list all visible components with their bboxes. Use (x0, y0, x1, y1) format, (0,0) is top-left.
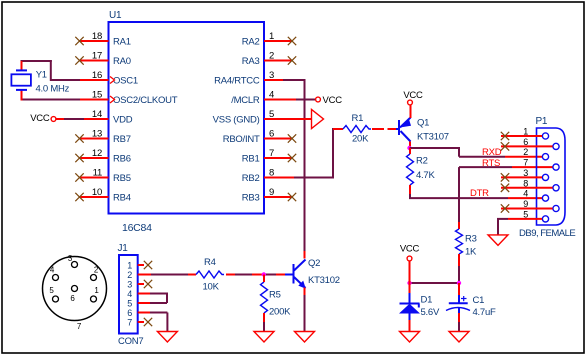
svg-text:1: 1 (127, 261, 132, 271)
svg-text:J1: J1 (118, 243, 129, 254)
no-connect X on pin 13 (75, 134, 83, 142)
svg-text:20K: 20K (352, 134, 369, 145)
wire VSS pin 5 (264, 118, 312, 120)
svg-text:7: 7 (523, 158, 528, 168)
svg-text:KT3102: KT3102 (308, 275, 340, 286)
no-connect X on J1 pin 1 (144, 261, 152, 269)
svg-text:4.7uF: 4.7uF (473, 307, 496, 318)
transistor Q1 KT3107 PNP (398, 120, 400, 135)
svg-text:RBO/INT: RBO/INT (223, 134, 260, 145)
svg-text:VCC: VCC (400, 244, 420, 255)
no-connect X on pin 18 (75, 37, 83, 45)
wire U1 pin 7 stub (264, 157, 292, 159)
wire node to RXD DB9 pin 2 (410, 147, 460, 149)
P1 pin circle 5 (542, 216, 548, 222)
wire VCC to VDD (56, 118, 64, 120)
svg-text:RA1: RA1 (113, 37, 131, 48)
wire J1 pin 7 (138, 321, 144, 323)
DIN socket pin 6 (72, 286, 78, 292)
svg-text:R3: R3 (465, 234, 477, 245)
svg-text:4.0 MHz: 4.0 MHz (36, 83, 70, 94)
wire crystal top to OSC1 (51, 79, 80, 81)
wire R4 to Q2 base (226, 274, 235, 276)
wire C1 to ground (458, 308, 460, 313)
DIN socket outer circle (43, 257, 107, 321)
junction dot R5 top (262, 272, 266, 276)
connector P1 DB9 outline (537, 128, 566, 225)
svg-text:16C84: 16C84 (122, 222, 152, 234)
wire J1 pin 1 (138, 264, 144, 266)
wire P1 pin 3 (501, 176, 542, 178)
P1 pin circle 6 (553, 143, 559, 149)
no-connect X on P1 pin 1 (501, 132, 509, 140)
ground under D1 (400, 332, 420, 343)
wire RTS DB9 pin 7 to R3 (512, 166, 553, 168)
wire U1 pin 9 stub (264, 196, 292, 198)
wire bottom node horizontal (409, 282, 459, 284)
transistor Q2 KT3102 NPN (293, 264, 295, 284)
svg-text:5.6V: 5.6V (421, 307, 440, 318)
no-connect X on P1 pin 6 (501, 142, 509, 150)
wire U1 pin 18 stub (80, 40, 109, 42)
svg-text:Y1: Y1 (36, 69, 47, 80)
wire node to D1 (409, 283, 411, 293)
resistor R4 (196, 271, 224, 278)
no-connect X on P1 pin 8 (501, 184, 509, 192)
resistor R5 (261, 282, 268, 313)
svg-text:RB7: RB7 (113, 134, 131, 145)
ground under C1 (449, 332, 469, 343)
wire RB2 pin 8 to R1 (264, 177, 294, 179)
svg-text:7: 7 (127, 318, 132, 328)
junction dot Q1 collector (407, 146, 411, 150)
svg-text:VCC: VCC (323, 95, 343, 106)
svg-text:RA3: RA3 (242, 56, 260, 67)
svg-text:KT3107: KT3107 (417, 132, 449, 143)
no-connect X on J1 pin 3 (144, 280, 152, 288)
IC U1 16C84 microcontroller body (109, 22, 265, 214)
svg-text:C1: C1 (473, 295, 485, 306)
wire R1 to Q1 base (372, 128, 384, 130)
wire VCC to Q1 emitter (410, 105, 412, 118)
no-connect X on pin 7 (288, 154, 296, 162)
resistor R3 (456, 229, 463, 254)
P1 pin circle 2 (542, 154, 548, 160)
svg-text:VDD: VDD (113, 115, 133, 126)
DIN socket pin 3 (72, 262, 78, 268)
P1 pin circle 9 (553, 205, 559, 211)
wire U1 pin 13 stub (80, 138, 109, 140)
wire P1 pin 5 to ground (508, 218, 542, 220)
resistor R1 (343, 126, 371, 133)
no-connect X on pin 9 (288, 193, 296, 201)
svg-text:1K: 1K (465, 247, 477, 258)
wire P1 pin 6 (501, 145, 553, 147)
svg-text:R4: R4 (204, 257, 216, 268)
wire crystal bottom to OSC2 (22, 99, 81, 101)
svg-text:RTS: RTS (482, 158, 500, 169)
svg-text:RXD: RXD (482, 147, 502, 158)
svg-text:/MCLR: /MCLR (231, 95, 260, 106)
ground under R5 (254, 332, 274, 343)
wire U1 pin 2 stub (264, 60, 292, 62)
svg-text:200K: 200K (269, 307, 291, 318)
ground arrow at VSS (312, 110, 324, 129)
wire DTR to DB9 pin 4 (409, 197, 508, 199)
ground under J1 (157, 332, 177, 343)
wire U1 pin 12 stub (80, 157, 109, 159)
svg-text:3: 3 (127, 280, 132, 290)
svg-text:U1: U1 (109, 10, 122, 21)
svg-text:DTR: DTR (470, 188, 489, 199)
wire /MCLR pin 4 to VCC (264, 99, 296, 101)
svg-text:Q2: Q2 (308, 258, 320, 269)
power VCC at /MCLR (316, 97, 321, 102)
ground under P1 pin 5 (488, 235, 508, 246)
svg-text:RB4: RB4 (113, 193, 131, 204)
P1 pin circle 3 (542, 174, 548, 180)
resistor R2 (407, 154, 414, 185)
no-connect X on pin 17 (75, 56, 83, 64)
no-connect X on J1 pin 7 (144, 318, 152, 326)
wire P1 pin 9 (501, 208, 553, 210)
wire U1 pin 17 stub (80, 60, 109, 62)
no-connect X on P1 pin 3 (501, 173, 509, 181)
junction dot left bottom node (407, 281, 411, 285)
P1 pin circle 1 (542, 133, 548, 139)
svg-text:RA2: RA2 (242, 37, 260, 48)
wire VCC to bottom node (409, 261, 411, 283)
wire U1 pin 11 stub (80, 177, 109, 179)
DIN socket pin 4 (53, 275, 59, 281)
svg-text:Q1: Q1 (417, 118, 429, 129)
svg-text:RA0: RA0 (113, 56, 131, 67)
no-connect X on pin 2 (288, 56, 296, 64)
P1 pin circle 8 (553, 185, 559, 191)
svg-text:6: 6 (127, 308, 132, 318)
no-connect X on pin 11 (75, 173, 83, 181)
wire R5 to ground (263, 313, 265, 322)
svg-text:4: 4 (523, 189, 528, 199)
svg-text:RB3: RB3 (242, 193, 260, 204)
svg-text:2: 2 (127, 270, 132, 280)
svg-text:P1: P1 (536, 116, 548, 127)
svg-text:R5: R5 (269, 290, 281, 301)
capacitor C1 polarized (449, 302, 468, 304)
wire J1 pins 4-5 loop (138, 293, 150, 295)
svg-text:10K: 10K (203, 282, 220, 293)
P1 pin circle 7 (553, 164, 559, 170)
svg-text:RB6: RB6 (113, 154, 131, 165)
wire OSC2 pin 15 stub (80, 99, 109, 101)
wire node to R2 (409, 148, 411, 154)
wire Q1 collector to node (409, 142, 411, 150)
wire Q2 emitter to ground (304, 288, 306, 296)
svg-text:5: 5 (127, 299, 132, 309)
svg-text:DB9, FEMALE: DB9, FEMALE (519, 228, 575, 239)
svg-text:4: 4 (127, 289, 132, 299)
wire P1 pin 8 (501, 187, 553, 189)
wire node to C1 (458, 283, 460, 295)
svg-text:RA4/RTCC: RA4/RTCC (214, 76, 260, 87)
ground under Q2 (295, 332, 315, 343)
clock arrow on OSC2 (110, 96, 115, 103)
no-connect X on P1 pin 9 (501, 204, 509, 212)
svg-text:CON7: CON7 (118, 336, 143, 347)
wire OSC1 pin 16 stub (80, 79, 109, 81)
svg-text:4.7K: 4.7K (416, 170, 435, 181)
svg-text:RB5: RB5 (113, 173, 131, 184)
wire R2 to DTR (409, 185, 411, 194)
connector J1 body (119, 255, 138, 334)
svg-text:OSC1: OSC1 (113, 76, 138, 87)
wire U1 pin 6 stub (264, 138, 292, 140)
wire R5 top (263, 275, 265, 283)
svg-text:VSS (GND): VSS (GND) (213, 115, 260, 126)
wire RA4/RTCC pin 3 to Q2 collector (264, 79, 283, 81)
svg-text:R2: R2 (416, 156, 428, 167)
svg-text:R1: R1 (352, 113, 364, 124)
wire J1 pin 3 (138, 283, 144, 285)
no-connect X on pin 1 (288, 37, 296, 45)
no-connect X on pin 6 (288, 134, 296, 142)
clock arrow on OSC1 (110, 77, 115, 84)
wire J1 pin 6 to ground (138, 312, 150, 314)
svg-text:VCC: VCC (403, 90, 423, 101)
junction dot right bottom node (457, 281, 461, 285)
svg-text:2: 2 (523, 147, 528, 157)
DIN socket pin 5 (53, 296, 59, 302)
svg-text:D1: D1 (421, 295, 433, 306)
wire U1 pin 10 stub (80, 196, 109, 198)
diode D1 zener (400, 303, 420, 305)
wire P1 pin 1 (501, 135, 542, 137)
P1 pin circle 4 (542, 195, 548, 201)
svg-text:VCC: VCC (30, 113, 50, 124)
wire D1 to ground (409, 314, 411, 321)
DIN socket pin 1 (91, 296, 97, 302)
svg-text:RB2: RB2 (242, 173, 260, 184)
crystal Y1 (11, 74, 31, 85)
svg-text:RB1: RB1 (242, 154, 260, 165)
wire U1 pin 1 stub (264, 40, 292, 42)
DIN socket pin 2 (91, 275, 97, 281)
svg-text:OSC2/CLKOUT: OSC2/CLKOUT (113, 95, 178, 106)
wire R3 to bottom node (458, 254, 460, 266)
wire J1 pin 2 to R4 (138, 274, 151, 276)
no-connect X on pin 12 (75, 154, 83, 162)
no-connect X on pin 10 (75, 193, 83, 201)
